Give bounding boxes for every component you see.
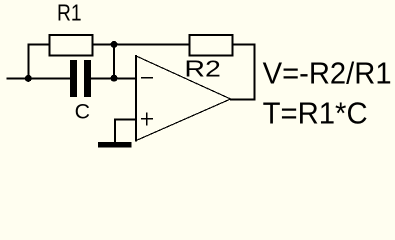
wire: vertical from input junction up to R1 level bbox=[28, 44, 30, 80]
wire: R1 right lead to top junction bbox=[94, 44, 115, 46]
node B2 junction dot (minus input net) bbox=[111, 75, 118, 82]
node A junction dot (input) bbox=[25, 75, 32, 82]
capacitor C left plate bbox=[70, 60, 77, 97]
op-amp minus input symbol bbox=[141, 77, 153, 79]
wire: vertical between top junction and minus-input node bbox=[113, 45, 115, 80]
op-amp plus input symbol bbox=[141, 112, 153, 125]
ground bbox=[98, 142, 132, 148]
wire: input stub to capacitor (node A horizontal) bbox=[7, 78, 71, 80]
svg-text:T=R1*C: T=R1*C bbox=[263, 97, 368, 131]
wire: top junction to R2 bbox=[114, 44, 189, 46]
op-amp U1 triangle bbox=[136, 55, 232, 141]
wire: vertical from plus input down to ground bbox=[114, 118, 116, 143]
wire: capacitor right plate to op-amp minus input bbox=[91, 78, 137, 80]
resistor R1 bbox=[49, 34, 94, 56]
wire: R1 left lead bbox=[28, 44, 49, 46]
capacitor C right plate bbox=[84, 60, 91, 97]
wire: op-amp plus input horizontal bbox=[114, 118, 137, 120]
wire: feedback vertical (output to R2) bbox=[254, 45, 256, 101]
node B junction dot (top, R1-R2 net) bbox=[111, 41, 118, 48]
svg-text:R1: R1 bbox=[57, 0, 82, 26]
svg-text:R2: R2 bbox=[184, 55, 221, 81]
wire: op-amp output to feedback corner bbox=[230, 99, 256, 101]
resistor R2 bbox=[189, 34, 234, 56]
wire: R2 right lead bbox=[234, 44, 256, 46]
svg-text:C: C bbox=[75, 100, 90, 124]
svg-text:V=-R2/R1: V=-R2/R1 bbox=[263, 57, 392, 91]
